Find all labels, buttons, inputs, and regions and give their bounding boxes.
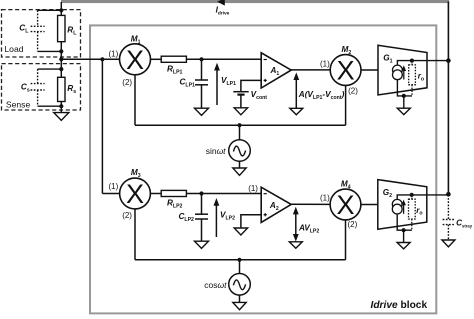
svg-text:(1): (1) bbox=[109, 182, 119, 191]
svg-text:cosωt: cosωt bbox=[204, 280, 227, 290]
svg-text:(2): (2) bbox=[348, 87, 358, 96]
svg-text:sinωt: sinωt bbox=[206, 146, 226, 156]
svg-text:Sense: Sense bbox=[6, 100, 31, 110]
svg-text:(1): (1) bbox=[248, 184, 258, 193]
svg-text:(2): (2) bbox=[122, 211, 132, 220]
svg-text:X: X bbox=[126, 179, 144, 209]
svg-text:(1): (1) bbox=[109, 49, 119, 58]
svg-text:X: X bbox=[126, 45, 144, 75]
svg-text:(2): (2) bbox=[348, 220, 358, 229]
svg-text:X: X bbox=[337, 56, 355, 86]
svg-text:X: X bbox=[336, 190, 354, 220]
svg-text:Load: Load bbox=[4, 44, 23, 54]
svg-text:(1): (1) bbox=[320, 60, 330, 69]
svg-text:Idrive block: Idrive block bbox=[371, 300, 428, 311]
svg-text:(1): (1) bbox=[320, 194, 330, 203]
svg-text:(2): (2) bbox=[122, 78, 132, 87]
